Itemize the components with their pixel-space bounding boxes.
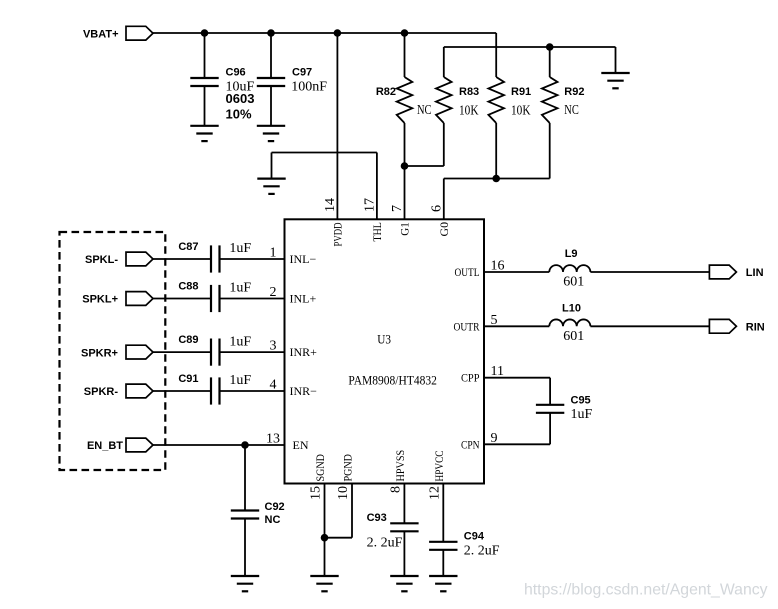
wire gain rail 2 bbox=[444, 46, 616, 48]
wire C88 to IC bbox=[220, 298, 285, 300]
junction C96 top bbox=[201, 29, 209, 37]
svg-text:NC: NC bbox=[417, 103, 432, 118]
svg-text:100nF: 100nF bbox=[291, 80, 327, 95]
ground under C97 bbox=[257, 126, 285, 141]
connector flag SPKL- bbox=[126, 252, 153, 266]
wire C96 bottom lead bbox=[204, 86, 206, 126]
svg-text:U3: U3 bbox=[377, 332, 391, 347]
ground under C96 bbox=[190, 126, 218, 141]
wire C93 bottom lead bbox=[403, 531, 405, 576]
svg-text:OUTR: OUTR bbox=[454, 319, 480, 333]
connector flag RIN bbox=[709, 319, 736, 333]
svg-text:R92: R92 bbox=[564, 86, 584, 98]
wire PGND to SGND jog bbox=[325, 537, 353, 539]
junction SGND/PGND join bbox=[321, 534, 329, 542]
svg-text:C87: C87 bbox=[178, 241, 198, 253]
resistor R83 bbox=[436, 77, 452, 123]
wire OUTR to L10 bbox=[484, 325, 549, 327]
svg-text:601: 601 bbox=[563, 275, 584, 290]
svg-text:4: 4 bbox=[270, 378, 277, 393]
wire C92 top lead bbox=[244, 445, 246, 511]
wire R83 top lead bbox=[443, 47, 445, 77]
wire R91 top lead bbox=[495, 33, 497, 77]
ground under SGND bbox=[310, 576, 338, 591]
capacitor C97 bbox=[257, 78, 285, 86]
wire C94 bottom lead bbox=[442, 550, 444, 576]
wire THL pin 17 column bbox=[376, 153, 378, 220]
junction C97 top bbox=[267, 29, 275, 37]
svg-text:SPKR-: SPKR- bbox=[84, 386, 119, 398]
svg-text:https://blog.csdn.net/Agent_Wa: https://blog.csdn.net/Agent_Wancy bbox=[524, 582, 768, 599]
svg-text:1uF: 1uF bbox=[229, 241, 251, 256]
wire R92 bottom lead bbox=[549, 123, 551, 179]
svg-text:10K: 10K bbox=[511, 103, 531, 118]
wire PGND pin 10 drop bbox=[351, 484, 353, 538]
capacitor C94 bbox=[429, 542, 457, 550]
wire R82 bottom lead / G1 pin 7 column bbox=[404, 123, 406, 219]
svg-text:12: 12 bbox=[427, 486, 442, 500]
inductor L10 bbox=[549, 319, 590, 326]
wire EN_BT to IC bbox=[153, 444, 285, 446]
svg-text:INL+: INL+ bbox=[290, 292, 317, 306]
wire THL ground drop bbox=[271, 153, 273, 179]
svg-text:G0: G0 bbox=[437, 222, 451, 237]
wire C97 bottom lead bbox=[270, 86, 272, 126]
svg-text:CPN: CPN bbox=[461, 437, 480, 451]
junction R82 bottom bbox=[401, 162, 409, 170]
junction R91 bottom bbox=[492, 175, 500, 183]
svg-text:INR+: INR+ bbox=[290, 345, 318, 359]
svg-text:EN: EN bbox=[293, 438, 309, 452]
wire R82 top lead bbox=[404, 33, 406, 77]
wire SPKL- to C87 bbox=[153, 258, 211, 260]
svg-text:C93: C93 bbox=[367, 512, 387, 524]
svg-text:1: 1 bbox=[270, 246, 277, 261]
wire L9 to LIN bbox=[590, 271, 709, 273]
svg-text:EN_BT: EN_BT bbox=[87, 440, 123, 452]
wire C92 bottom lead bbox=[244, 519, 246, 577]
ground THL bbox=[257, 179, 285, 194]
svg-text:LIN: LIN bbox=[746, 267, 764, 279]
svg-text:1uF: 1uF bbox=[229, 373, 251, 388]
svg-text:2. 2uF: 2. 2uF bbox=[367, 535, 403, 550]
svg-text:C97: C97 bbox=[292, 66, 312, 78]
svg-text:C95: C95 bbox=[571, 395, 591, 407]
junction PVDD column bbox=[334, 29, 342, 37]
svg-text:C89: C89 bbox=[178, 334, 198, 346]
capacitor C87 bbox=[211, 245, 220, 272]
ground under C93 bbox=[390, 576, 418, 591]
capacitor C95 bbox=[536, 405, 564, 413]
connector flag LIN bbox=[709, 265, 736, 279]
svg-text:601: 601 bbox=[563, 329, 584, 344]
svg-text:10K: 10K bbox=[459, 103, 479, 118]
wire OUTL to L9 bbox=[484, 271, 549, 273]
svg-text:8: 8 bbox=[388, 486, 403, 493]
svg-text:PVDD: PVDD bbox=[331, 222, 345, 246]
resistor R92 bbox=[542, 77, 558, 123]
svg-text:R91: R91 bbox=[511, 86, 531, 98]
svg-text:3: 3 bbox=[270, 339, 277, 354]
wire HPVCC pin 12 lead bbox=[442, 484, 444, 542]
inductor L9 bbox=[549, 265, 590, 272]
svg-text:C91: C91 bbox=[178, 373, 198, 385]
svg-text:RIN: RIN bbox=[746, 322, 765, 334]
connector flag SPKL+ bbox=[126, 292, 153, 306]
junction EN / C92 tap bbox=[241, 441, 249, 449]
wire C89 to IC bbox=[220, 351, 285, 353]
svg-text:C94: C94 bbox=[464, 530, 485, 542]
capacitor C91 bbox=[211, 377, 220, 404]
svg-text:C92: C92 bbox=[265, 501, 285, 513]
wire C95 bottom lead bbox=[549, 413, 551, 445]
svg-text:NC: NC bbox=[564, 103, 579, 118]
svg-text:C96: C96 bbox=[226, 66, 246, 78]
wire G0 pin 6 column bbox=[443, 179, 445, 220]
capacitor C89 bbox=[211, 339, 220, 366]
svg-text:INL−: INL− bbox=[290, 252, 317, 266]
wire SPKR- to C91 bbox=[153, 390, 211, 392]
capacitor C88 bbox=[211, 285, 220, 312]
svg-text:2: 2 bbox=[270, 285, 277, 300]
wire SGND pin 15 column bbox=[324, 484, 326, 577]
svg-text:10%: 10% bbox=[226, 106, 252, 121]
connector flag EN_BT bbox=[126, 438, 153, 452]
connector flag SPKR+ bbox=[126, 345, 153, 359]
svg-text:C88: C88 bbox=[178, 281, 198, 293]
resistor R91 bbox=[488, 77, 504, 123]
wire HPVSS pin 8 lead bbox=[403, 484, 405, 524]
wire THL ground link bbox=[272, 152, 377, 154]
wire L10 to RIN bbox=[590, 325, 709, 327]
ground under C92 bbox=[231, 576, 259, 591]
connector flag VBAT+ bbox=[126, 26, 153, 40]
wire CPP stub bbox=[484, 377, 550, 379]
svg-text:SGND: SGND bbox=[313, 454, 327, 482]
wire R83 bottom lead bbox=[443, 123, 445, 166]
svg-text:INR−: INR− bbox=[290, 384, 318, 398]
svg-text:L9: L9 bbox=[565, 248, 578, 260]
svg-text:1uF: 1uF bbox=[571, 407, 593, 422]
svg-text:PAM8908/HT4832: PAM8908/HT4832 bbox=[348, 373, 437, 388]
svg-text:7: 7 bbox=[390, 205, 405, 212]
connector flag SPKR- bbox=[126, 384, 153, 398]
svg-text:15: 15 bbox=[309, 486, 324, 500]
capacitor C93 bbox=[390, 523, 418, 531]
svg-text:SPKL+: SPKL+ bbox=[82, 294, 118, 306]
ground top right bbox=[601, 73, 629, 88]
svg-text:2. 2uF: 2. 2uF bbox=[464, 543, 500, 558]
op-amp / IC U3 body bbox=[285, 219, 485, 483]
svg-text:THL: THL bbox=[370, 222, 384, 241]
svg-text:HPVSS: HPVSS bbox=[393, 450, 407, 482]
wire VBAT+ rail bbox=[153, 32, 496, 34]
svg-text:L10: L10 bbox=[562, 302, 581, 314]
svg-text:R82: R82 bbox=[376, 86, 396, 98]
svg-text:10: 10 bbox=[336, 486, 351, 500]
wire C95 top lead bbox=[549, 378, 551, 405]
dashed input group box bbox=[60, 232, 166, 470]
svg-text:14: 14 bbox=[323, 198, 338, 212]
svg-text:CPP: CPP bbox=[461, 371, 480, 385]
capacitor C92 bbox=[231, 511, 259, 519]
wire R91 bottom lead bbox=[495, 123, 497, 179]
svg-text:OUTL: OUTL bbox=[455, 265, 480, 279]
wire C97 top lead bbox=[270, 33, 272, 78]
svg-text:1uF: 1uF bbox=[229, 281, 251, 296]
svg-text:0603: 0603 bbox=[226, 91, 255, 106]
wire C91 to IC bbox=[220, 390, 285, 392]
svg-text:1uF: 1uF bbox=[229, 334, 251, 349]
wire R91-R92 tie bbox=[444, 178, 550, 180]
ground under C94 bbox=[429, 576, 457, 591]
wire CPN stub bbox=[484, 443, 550, 445]
wire SPKL+ to C88 bbox=[153, 298, 211, 300]
wire PVDD pin 14 column bbox=[336, 33, 338, 219]
svg-text:R83: R83 bbox=[459, 86, 479, 98]
svg-text:HPVCC: HPVCC bbox=[432, 451, 446, 482]
wire C87 to IC bbox=[220, 258, 285, 260]
junction R82 top bbox=[401, 29, 409, 37]
svg-text:13: 13 bbox=[266, 432, 280, 447]
svg-text:SPKR+: SPKR+ bbox=[81, 347, 118, 359]
svg-text:17: 17 bbox=[362, 198, 377, 212]
wire R82-R83 tie bbox=[405, 165, 444, 167]
svg-text:NC: NC bbox=[265, 514, 281, 526]
svg-text:VBAT+: VBAT+ bbox=[83, 28, 119, 40]
junction R92 top bbox=[546, 43, 554, 51]
svg-text:G1: G1 bbox=[398, 222, 412, 236]
svg-text:SPKL-: SPKL- bbox=[85, 254, 118, 266]
wire SPKR+ to C89 bbox=[153, 351, 211, 353]
svg-text:6: 6 bbox=[429, 205, 444, 212]
wire R92 top lead bbox=[549, 47, 551, 77]
wire rail2 ground drop bbox=[615, 47, 617, 73]
resistor R82 bbox=[397, 77, 413, 123]
wire C96 top lead bbox=[204, 33, 206, 78]
capacitor C96 bbox=[190, 78, 218, 86]
svg-text:PGND: PGND bbox=[341, 454, 355, 482]
